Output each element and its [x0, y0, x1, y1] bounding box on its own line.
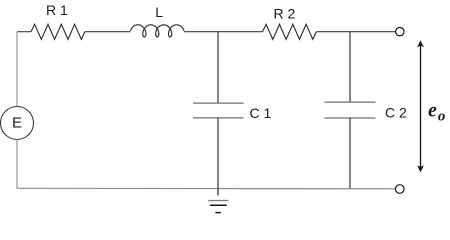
capacitor C1: [193, 103, 244, 118]
wire C2 to bottom rail: [349, 118, 351, 188]
svg-text:R 2: R 2: [274, 6, 296, 22]
inductor L: [130, 25, 184, 37]
wire node B to C2: [349, 32, 351, 102]
resistor R1: [31, 24, 85, 39]
source E: [1, 107, 34, 140]
svg-text:E: E: [12, 115, 22, 132]
output terminal top: [396, 28, 404, 36]
wire R2 to node B: [316, 31, 350, 33]
arrow eo: [417, 40, 424, 172]
wire node B to output terminal: [350, 31, 396, 33]
svg-text:R 1: R 1: [46, 2, 68, 18]
wire top rail left segment: [17, 31, 31, 33]
wire between R1 and L: [85, 31, 130, 33]
output terminal bottom: [395, 185, 404, 194]
wire node A to C1: [217, 32, 219, 103]
wire bottom rail: [17, 187, 395, 190]
resistor R2: [263, 24, 317, 39]
ground: [208, 188, 228, 212]
svg-text:C 2: C 2: [385, 104, 407, 120]
wire left vertical lower: [16, 140, 18, 189]
wire left vertical upper: [16, 32, 18, 107]
wire between L and node A: [184, 31, 218, 33]
svg-text:C 1: C 1: [250, 105, 272, 121]
capacitor C2: [325, 102, 376, 118]
wire C1 to bottom rail: [217, 118, 219, 188]
wire node A to R2: [218, 31, 263, 33]
svg-text:L: L: [155, 4, 163, 20]
